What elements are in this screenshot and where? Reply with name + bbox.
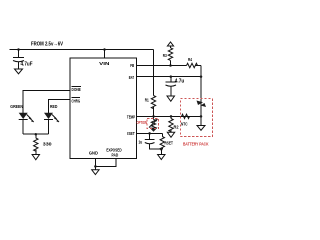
pin EXPOSED PAD label [106, 148, 121, 158]
pin DONE label with overline [72, 86, 81, 92]
pin BAT label [129, 75, 134, 80]
wire VIN top rail [10, 49, 154, 51]
label OPTION [137, 120, 148, 125]
svg-text:R3: R3 [163, 53, 167, 58]
label NTC [181, 121, 188, 126]
svg-text:BATTERY PACK: BATTERY PACK [183, 142, 209, 147]
svg-text:PAD: PAD [112, 153, 119, 158]
node BAT-cap junction [170, 75, 173, 78]
wire FB net [137, 65, 187, 67]
label 4.7uF [21, 62, 33, 68]
pin FB label [130, 63, 134, 68]
node TEMP-R1 junction [152, 115, 155, 118]
power VCC up arrow [167, 42, 173, 46]
svg-text:4.7u: 4.7u [175, 78, 185, 84]
label RSET [165, 140, 174, 145]
label GREEN [10, 104, 23, 109]
pin ISET label [127, 131, 135, 136]
svg-text:330: 330 [43, 141, 52, 146]
label BATTERY PACK [183, 142, 209, 147]
node FB-R3 junction [169, 64, 172, 67]
svg-text:RSET: RSET [165, 140, 174, 145]
ground LED resistor [32, 155, 39, 160]
ground IC GND [92, 166, 99, 174]
capacitor COUT 4.7u [166, 77, 177, 102]
wire DONE net [23, 91, 70, 113]
node ISET-cap junction [148, 132, 151, 135]
node LED junction [35, 133, 38, 136]
LED D1 green [19, 113, 34, 134]
label R2 [174, 124, 179, 129]
resistor NTC in pack [182, 114, 190, 118]
resistor R4 [187, 63, 202, 67]
ground battery negative arrow [197, 126, 205, 131]
wire VIN pin drop [104, 50, 106, 59]
ground ISET [158, 149, 165, 159]
svg-text:R1: R1 [145, 98, 149, 103]
label 4.7u [175, 78, 185, 84]
connector battery plug arrows [197, 101, 207, 108]
wire LED cathode join [23, 133, 48, 135]
svg-text:ISET: ISET [127, 131, 135, 136]
resistor R3 [168, 46, 172, 66]
node VIN pin junction [103, 48, 106, 51]
pin VIN label [99, 61, 110, 66]
label RED [50, 104, 57, 109]
label R1 [145, 98, 149, 103]
svg-text:VIN: VIN [99, 61, 110, 66]
node TEMP-R2 junction [170, 115, 173, 118]
label R4 [188, 57, 192, 62]
node input cap junction [17, 48, 20, 51]
svg-text:GREEN: GREEN [10, 104, 23, 109]
pin CHRG label with overline [72, 97, 81, 103]
svg-text:4.7uF: 4.7uF [21, 62, 33, 68]
svg-text:FROM 2.5v→6V: FROM 2.5v→6V [31, 42, 63, 48]
resistor RSET [160, 133, 164, 149]
IC U1 battery charger box [70, 58, 137, 159]
wire GND pin [95, 158, 116, 166]
svg-text:RED: RED [50, 104, 57, 109]
node BAT-battery junction [200, 75, 203, 78]
svg-text:OPTION: OPTION [137, 120, 148, 125]
wire CHRG net [49, 100, 71, 113]
node GND junction [94, 165, 97, 168]
svg-text:GND: GND [89, 150, 99, 155]
wire battery positive drop [200, 66, 202, 127]
svg-text:TEMP: TEMP [127, 114, 135, 119]
label 330 [43, 141, 52, 146]
svg-text:R4: R4 [188, 57, 192, 62]
wire BAT net [137, 76, 202, 78]
LED D2 red [44, 113, 59, 134]
svg-text:FB: FB [130, 63, 134, 68]
resistor 330 [34, 134, 38, 154]
svg-text:CHRG: CHRG [72, 98, 81, 103]
wire ISET net [137, 132, 163, 134]
label R3 [163, 53, 167, 58]
svg-text:NTC: NTC [181, 121, 188, 126]
wire TEMP net [137, 115, 202, 117]
svg-text:DONE: DONE [72, 87, 81, 92]
node NTC-battery junction [200, 115, 203, 118]
resistor R1 [151, 96, 155, 117]
pin TEMP label [127, 114, 135, 119]
capacitor CIN 4.7uF [13, 50, 24, 74]
resistor R2 [167, 116, 174, 137]
capacitor 1u [145, 133, 163, 149]
wire VIN drop to R1 [153, 50, 155, 96]
node RSET-cap bottom junction [160, 148, 163, 151]
svg-text:1u: 1u [139, 140, 143, 145]
thermistor RT option [149, 116, 158, 131]
label FROM 2.5v-6V [31, 42, 63, 48]
svg-text:BAT: BAT [129, 75, 134, 80]
svg-text:R2: R2 [174, 124, 179, 129]
box OPTION dashed [147, 119, 159, 129]
pin GND label [89, 150, 99, 155]
box BATTERY PACK dashed [180, 99, 212, 137]
label 1u [139, 140, 143, 145]
